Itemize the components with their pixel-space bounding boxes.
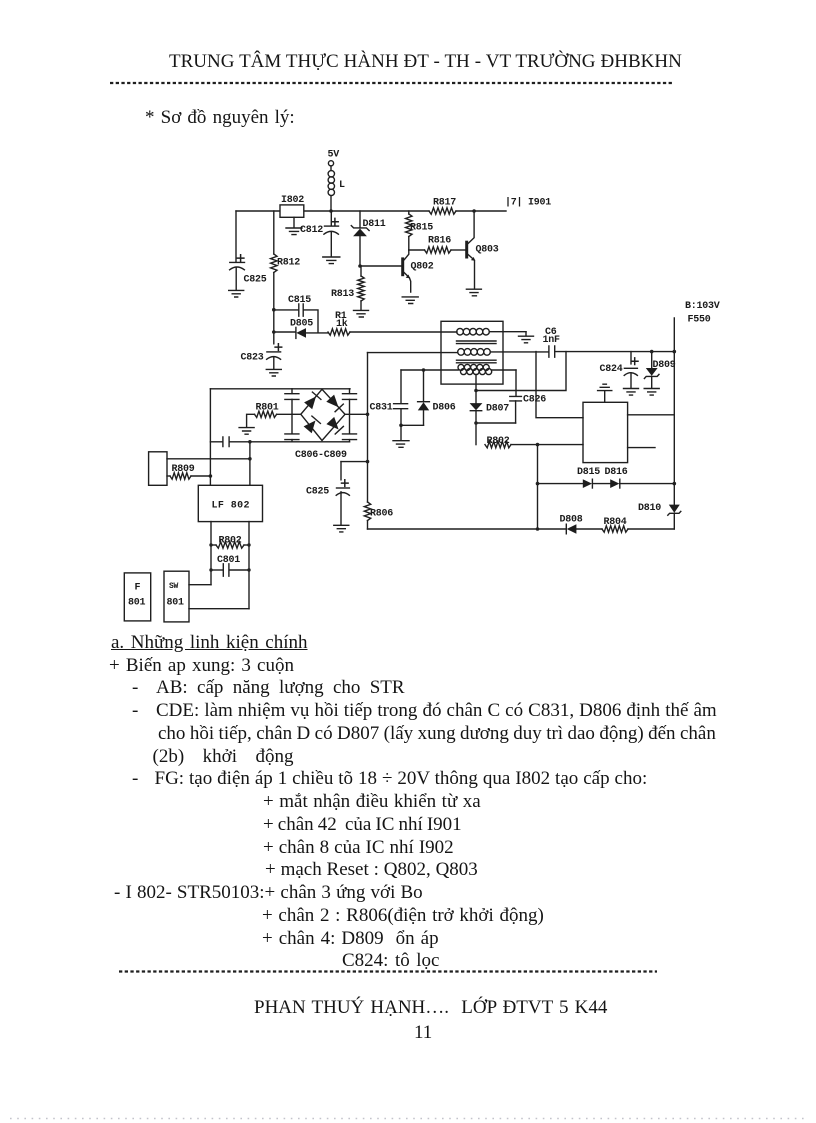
svg-text:D810: D810 bbox=[638, 503, 661, 514]
wire C831/D806 common bbox=[401, 424, 424, 426]
wire D807 top node bbox=[476, 352, 566, 391]
resistor R802 bbox=[485, 436, 583, 448]
junction bbox=[472, 209, 476, 213]
header dashed rule bbox=[110, 82, 672, 84]
resistor R813 bbox=[331, 266, 369, 317]
capacitor C824 bbox=[600, 352, 639, 396]
resistor R809 bbox=[167, 464, 210, 479]
transistor Q803 bbox=[465, 211, 499, 296]
bridge diode 4 bbox=[326, 417, 343, 434]
svg-text:801: 801 bbox=[167, 598, 185, 609]
zener D809 bbox=[644, 350, 676, 395]
wire bottom return bbox=[368, 528, 675, 530]
wire CDE rail bbox=[367, 353, 369, 502]
svg-text:C815: C815 bbox=[288, 295, 311, 306]
winding primary AB bbox=[457, 328, 526, 335]
junction bbox=[474, 389, 478, 393]
net B+ labels bbox=[685, 301, 720, 326]
resistor R816 bbox=[409, 236, 465, 254]
resistor R804 bbox=[602, 517, 628, 532]
bridge rectifier diamond bbox=[301, 389, 345, 440]
resistor R1 1k bbox=[328, 311, 350, 335]
svg-text:C825: C825 bbox=[244, 275, 267, 286]
svg-text:D815: D815 bbox=[577, 467, 600, 478]
svg-text:C806-C809: C806-C809 bbox=[295, 450, 347, 461]
bridge diode 1 bbox=[304, 392, 321, 409]
diode D805 bbox=[274, 319, 328, 339]
junction bbox=[272, 330, 276, 334]
junction bbox=[422, 368, 426, 372]
capacitor C812 bbox=[300, 211, 340, 264]
svg-text:1nF: 1nF bbox=[543, 335, 561, 346]
resistor R812 bbox=[271, 254, 301, 344]
svg-text:C824: C824 bbox=[600, 364, 623, 375]
svg-text:R815: R815 bbox=[410, 223, 433, 234]
capacitor line filter bbox=[223, 437, 229, 447]
regulator I802 bbox=[280, 195, 304, 217]
core lines bbox=[457, 341, 497, 363]
junction bbox=[536, 527, 540, 531]
svg-text:R812: R812 bbox=[277, 258, 300, 269]
ground (winding AB) bbox=[519, 332, 534, 343]
svg-text:LF 802: LF 802 bbox=[212, 501, 250, 512]
wire AC riser right bbox=[249, 442, 251, 486]
svg-text:D806: D806 bbox=[433, 403, 456, 414]
svg-text:C812: C812 bbox=[300, 225, 323, 236]
junction bbox=[248, 457, 252, 461]
svg-text:F550: F550 bbox=[688, 315, 711, 326]
wire bridge left node bbox=[292, 413, 301, 415]
svg-text:D807: D807 bbox=[486, 404, 509, 415]
junction bbox=[366, 460, 370, 464]
transistor Q802 bbox=[401, 250, 434, 304]
svg-text:R813: R813 bbox=[331, 289, 354, 300]
capacitor C825 (left) bbox=[229, 211, 267, 297]
header title bbox=[169, 51, 682, 73]
ground under I802 bbox=[286, 217, 302, 234]
svg-text:|7| I901: |7| I901 bbox=[505, 197, 551, 209]
wires SW801 bbox=[189, 585, 249, 609]
body text bbox=[111, 632, 308, 654]
inductor L bbox=[328, 171, 345, 211]
svg-text:B:103V: B:103V bbox=[685, 301, 720, 312]
junction bbox=[399, 424, 403, 428]
svg-text:801: 801 bbox=[128, 598, 146, 609]
svg-text:SW: SW bbox=[169, 582, 179, 591]
resistor R817 bbox=[429, 198, 456, 215]
capacitor C801 bbox=[209, 555, 250, 576]
capacitor C807 chain right bbox=[343, 389, 357, 442]
wire base Q802 bbox=[360, 265, 401, 267]
winding FG bbox=[368, 349, 549, 356]
diode D806 bbox=[418, 370, 456, 425]
svg-text:C831: C831 bbox=[370, 403, 393, 414]
wire R812 drop bbox=[273, 211, 275, 254]
junction bbox=[673, 482, 677, 486]
wire to transformer primary bbox=[350, 331, 457, 333]
diode D807 bbox=[470, 391, 510, 445]
footer name bbox=[254, 997, 607, 1019]
svg-text:Q802: Q802 bbox=[411, 262, 434, 273]
bridge diode 3 bbox=[304, 416, 321, 433]
wire AC top bbox=[210, 388, 350, 390]
svg-text:C823: C823 bbox=[241, 353, 264, 364]
svg-text:R806: R806 bbox=[370, 509, 393, 520]
wire LF outputs bbox=[211, 522, 249, 609]
zener D811 bbox=[351, 211, 385, 266]
connector P801 bbox=[149, 452, 167, 486]
section label bbox=[145, 107, 295, 129]
junction bbox=[248, 440, 252, 444]
wire AC riser left bbox=[209, 389, 211, 486]
diode D816 bbox=[605, 467, 628, 488]
zener D810 bbox=[638, 484, 681, 529]
resistor R815 bbox=[406, 211, 434, 250]
switch SW801 bbox=[164, 571, 189, 622]
line filter LF802 bbox=[198, 485, 262, 521]
bridge diode 2 bbox=[326, 395, 343, 412]
resistor R806 bbox=[364, 502, 393, 529]
diode D808 bbox=[560, 515, 583, 534]
wire D807/C826 bottom bbox=[476, 422, 516, 424]
wire IC pin 2 stub bbox=[628, 447, 655, 449]
junction bbox=[673, 350, 677, 354]
wire connector to riser bbox=[167, 458, 250, 460]
resistor R801 bbox=[239, 403, 292, 435]
capacitor C823 bbox=[241, 344, 282, 376]
IC STR50103 bbox=[583, 402, 628, 462]
svg-text:F: F bbox=[135, 583, 141, 594]
junction base node bbox=[358, 264, 362, 268]
wire IC pin feed bbox=[536, 352, 583, 418]
resistor R802 (start) bbox=[209, 536, 250, 549]
wire 5V rail bbox=[236, 210, 506, 212]
fuse F801 bbox=[124, 573, 150, 621]
footer dashed rule bbox=[119, 970, 657, 972]
junction bbox=[536, 482, 540, 486]
diode D815 bbox=[577, 467, 600, 488]
svg-text:Q803: Q803 bbox=[476, 245, 499, 256]
junction bbox=[536, 443, 540, 447]
capacitor C815 bbox=[274, 295, 318, 332]
junction bbox=[329, 209, 333, 213]
wire R802 node drop bbox=[537, 445, 539, 529]
node 5V supply terminal bbox=[328, 150, 340, 171]
winding CDE (double) bbox=[401, 364, 516, 390]
junction bbox=[209, 474, 213, 478]
svg-text:R817: R817 bbox=[433, 198, 456, 209]
page number bbox=[414, 1022, 432, 1044]
ground (C831) bbox=[393, 425, 409, 447]
svg-text:C825: C825 bbox=[306, 487, 329, 498]
capacitor C806 chain left bbox=[285, 389, 299, 442]
transformer T core box bbox=[441, 321, 503, 384]
svg-text:D808: D808 bbox=[560, 515, 583, 526]
svg-text:D805: D805 bbox=[290, 319, 313, 330]
junction bbox=[366, 413, 370, 417]
wire bridge right node bbox=[345, 413, 368, 415]
junction bbox=[272, 308, 276, 312]
wire B+ rail bbox=[673, 318, 675, 484]
top pin inverted ground bbox=[598, 384, 612, 402]
svg-text:D816: D816 bbox=[605, 467, 628, 478]
wire IC pin to B+ bbox=[628, 414, 675, 416]
capacitor C826 bbox=[510, 370, 546, 423]
svg-text:C826: C826 bbox=[523, 395, 546, 406]
wire AC bottom bbox=[210, 441, 349, 443]
capacitor C825 (lower) bbox=[306, 462, 368, 532]
wire D815 row bbox=[538, 483, 675, 485]
capacitor C831 bbox=[370, 370, 408, 425]
svg-text:L: L bbox=[339, 180, 345, 191]
svg-text:R816: R816 bbox=[428, 236, 451, 247]
bottom dotted rule bbox=[10, 1118, 806, 1120]
junction bbox=[474, 421, 478, 425]
svg-text:5V: 5V bbox=[328, 150, 340, 161]
capacitor C6 1nF bbox=[543, 327, 675, 357]
